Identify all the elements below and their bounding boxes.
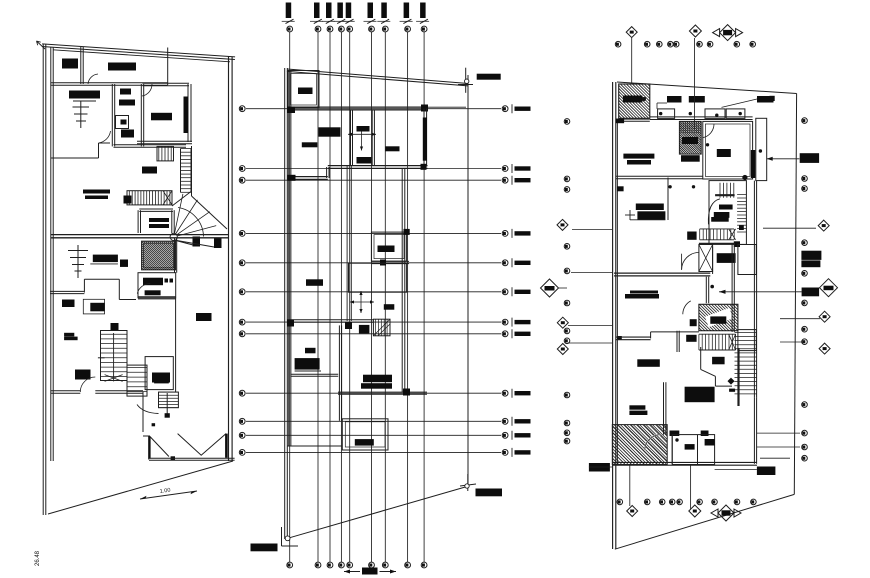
right plan: bottom bubble 3: [659, 499, 665, 505]
middle plan: horizontal grid line row 10: [246, 420, 501, 422]
right plan: third flight treads: [698, 334, 700, 350]
right plan: east room door arc: [702, 124, 714, 138]
middle plan: bottom dimension blob with arrows: [362, 568, 378, 575]
left plan: toilet blob2: [154, 380, 169, 383]
middle plan: grid 7 top bubble: [382, 26, 388, 32]
right plan: east bubble 9: [802, 402, 808, 408]
right plan: west stub lines: [571, 272, 612, 274]
middle plan: grid 5 top dim bar: [346, 3, 352, 19]
middle plan: horizontal grid line row 12: [246, 451, 501, 453]
right plan: lower bedroom blob: [637, 359, 660, 367]
right plan: top diamond marker: [626, 27, 637, 38]
left plan: lower kitchen blobs: [143, 278, 163, 286]
right plan: site north slanted boundary: [617, 82, 797, 94]
right plan: store room blob: [623, 96, 643, 103]
left plan: building west wall double: [50, 47, 52, 461]
left plan: hatched stair shaft: [142, 241, 176, 270]
right plan: east bubble 7: [802, 326, 808, 332]
right plan: bottom section line diamond: [629, 465, 631, 507]
right plan: west bubble 12: [564, 438, 570, 444]
middle plan: band wall row9: [338, 393, 427, 395]
middle plan: row 12 east tick and dim dash: [511, 448, 513, 457]
right plan: top bubble 1: [615, 41, 621, 47]
right plan: site east boundary: [794, 94, 796, 495]
middle plan: north-east corner label blob: [477, 74, 501, 80]
right plan: west bubble 8: [564, 338, 570, 344]
middle plan: vertical grid line 4: [340, 32, 342, 562]
middle plan: horizontal grid line row 1: [246, 108, 501, 110]
right plan: site south diagonal boundary: [615, 494, 795, 549]
right plan: site west boundary double: [612, 82, 614, 549]
middle plan: grid 1 bottom bubble: [287, 562, 293, 568]
right plan: building south wall: [612, 464, 757, 466]
middle plan: east wall upper section: [423, 109, 425, 167]
middle plan: grid 2 top bubble: [315, 26, 321, 32]
middle plan: south bay box: [342, 419, 388, 450]
left plan: lower kitchen box: [138, 273, 176, 298]
middle plan: column at west row1: [287, 107, 295, 114]
right plan: shaft blob below: [681, 155, 700, 162]
left plan: kitchen south wall: [51, 157, 99, 159]
right plan: west bubble 3: [564, 187, 570, 193]
left plan: top-left room door arc: [88, 74, 98, 84]
right plan: stair X-shaft strip: [699, 245, 713, 272]
middle plan: row 12 west bubble: [239, 450, 245, 456]
right plan: top bubble 9: [750, 41, 756, 47]
right plan: understair door diamond: [727, 378, 734, 385]
middle plan: grid 7 top dim bar: [381, 3, 387, 19]
middle plan: site south diagonal boundary: [288, 487, 467, 539]
middle plan: grid 4 top dim bar: [337, 3, 343, 19]
middle plan: west blobs lower: [305, 348, 316, 354]
right plan: third flight blob: [686, 335, 696, 342]
left plan: garage door leaf west: [150, 437, 169, 457]
right plan: stair top run treads: [719, 183, 721, 198]
right plan: north-east boundary column: [770, 96, 775, 101]
left plan: site boundary south diagonal: [48, 461, 233, 514]
right plan: door dot 2: [689, 112, 692, 115]
right plan: west diamond marker 3: [557, 344, 568, 355]
middle plan: row 6 west bubble: [239, 289, 245, 295]
left plan: lower south wall: [51, 392, 81, 394]
middle plan: horizontal grid line row 7: [246, 321, 501, 323]
left plan: upper stair riser column east: [180, 149, 182, 193]
left plan: upper stair top run: [157, 146, 174, 161]
left plan: kitchen label blob: [69, 91, 100, 99]
right plan: east leader arrow: [767, 158, 800, 160]
middle plan: room blobs west: [319, 127, 341, 136]
middle plan: row 11 east bubble: [502, 432, 508, 438]
right plan: east connecting stubs: [757, 432, 800, 434]
left plan: garage west jamb black: [148, 436, 150, 459]
left plan: living room east wall double: [187, 84, 189, 142]
left plan: lower south door arc: [80, 377, 95, 392]
middle plan: row 3 east tick and dim dash: [511, 176, 513, 185]
right plan: stair rail dark line: [737, 348, 739, 406]
middle plan: column row7 west: [287, 320, 294, 327]
right plan: lobby black blob: [717, 253, 736, 263]
right plan: lower east blob: [712, 357, 725, 365]
middle plan: grid 2 top dim bar: [314, 3, 320, 19]
middle plan: vertical grid line 9: [423, 32, 425, 562]
middle plan: column at east row1: [421, 105, 428, 112]
right plan: center wall lower: [663, 382, 665, 434]
right plan: stair landing box east: [738, 245, 756, 275]
middle plan: south-west corner label blob: [251, 544, 278, 552]
right plan: understair dash: [729, 389, 735, 392]
middle plan: row 2 east bubble: [502, 166, 508, 172]
left plan: hall table blob: [83, 190, 110, 194]
right plan: understair toilet walls: [700, 347, 702, 369]
middle plan: second band wall lower: [287, 178, 328, 180]
left plan: unit division wall double: [51, 237, 229, 239]
right plan: mid floor division wall: [614, 275, 710, 277]
right plan: building north wall: [650, 119, 753, 121]
right plan: section row line A: [572, 229, 612, 231]
middle plan: column row7 mid: [345, 322, 352, 329]
svg-text:1.00: 1.00: [159, 488, 170, 495]
right plan: section line top pentagon: [694, 38, 696, 129]
right plan: section line top diamond: [631, 38, 633, 84]
right plan: bay window strip east: [756, 118, 767, 180]
right plan: hall blobs west: [636, 204, 664, 211]
left plan: living room walls: [143, 85, 190, 87]
right plan: top bubble 3: [657, 41, 663, 47]
right plan: mid door dot: [710, 285, 714, 289]
right plan: top bubble 4: [668, 41, 674, 47]
right plan: west bubble 1: [564, 119, 570, 125]
right plan: mid-left label blobs: [630, 291, 658, 294]
left plan: passage room box: [139, 210, 173, 212]
left plan: bed blob top-left room: [62, 59, 78, 69]
right plan: stair block outline: [709, 181, 746, 245]
middle plan: second band jog: [326, 167, 328, 178]
middle plan: row 1 west bubble: [239, 106, 245, 112]
middle plan: grid 3 top dim bar: [326, 3, 332, 19]
middle plan: building south wall: [287, 445, 342, 447]
middle plan: row 3 east bubble: [502, 177, 508, 183]
middle plan: east window black bar: [423, 118, 427, 161]
middle plan: row 3 west bubble: [239, 177, 245, 183]
middle plan: row 8 east bubble: [502, 331, 508, 337]
right plan: south leader blob east: [757, 467, 776, 476]
right plan: east bubble 2: [802, 176, 808, 182]
right plan: south wall black squares: [670, 431, 680, 437]
left plan: stair landing blob: [75, 370, 91, 380]
right plan: east bubble 5: [802, 271, 808, 277]
left plan: top bedroom divider wall: [80, 47, 82, 84]
right plan: top bubble 6: [697, 41, 703, 47]
right plan: top leader blob 1: [667, 96, 682, 103]
right plan: east room label blob: [717, 149, 731, 157]
right plan: boundary column black: [617, 336, 622, 340]
middle plan: row 11 west bubble: [239, 432, 245, 438]
middle plan: first floor band wall: [287, 109, 428, 111]
left plan: site boundary north double line: [42, 47, 235, 60]
left plan: top blob beside plant: [93, 255, 118, 263]
middle plan: top-left room box: [288, 71, 320, 108]
left plan: stair side tick: [98, 357, 105, 359]
right plan: hall cross glyph: [625, 214, 635, 216]
right plan: east bubble 3: [802, 186, 808, 192]
right plan: stair band corner square: [739, 226, 744, 231]
middle plan: grid 1 top dim bar: [286, 3, 292, 19]
left plan: kitchen plant symbol: [80, 101, 82, 128]
right plan: hatched stair room bottom-left: [612, 425, 667, 465]
right plan: store room south wall: [616, 120, 650, 122]
left plan: label blob top-middle: [108, 63, 136, 71]
right plan: west big room south wall: [616, 178, 703, 180]
right plan: east bubble 8: [802, 339, 808, 345]
middle plan: east column row2: [421, 164, 427, 170]
left plan: diagonal wall to fan: [192, 196, 228, 229]
right plan: west bubble 2: [564, 176, 570, 182]
middle plan: site east boundary: [467, 75, 469, 487]
middle plan: wall under west rooms: [290, 375, 338, 377]
right plan: top leader blob 3: [757, 96, 774, 103]
right plan: hatched store room top-left: [619, 84, 650, 118]
middle plan: vertical grid line 3: [329, 32, 331, 562]
right plan: bottom small room: [672, 435, 714, 465]
middle plan: grid 8 top bubble: [405, 26, 411, 32]
middle plan: grid 2 bottom bubble: [315, 562, 321, 568]
right plan: landing up-arrow blob: [705, 308, 733, 327]
right plan: east bubble 10: [802, 430, 808, 436]
left plan: setback dimension 1.00: [140, 491, 197, 499]
middle plan: column at row5: [380, 260, 386, 266]
middle plan: row 10 west bubble: [239, 418, 245, 424]
right plan: hatched stair landing: [699, 304, 738, 330]
right plan: porch box 2: [705, 109, 725, 119]
left plan: entrance winder stair: [159, 392, 179, 408]
left plan: stair bottom X break: [105, 375, 123, 382]
middle plan: row 10 east tick and dim dash: [511, 417, 513, 426]
right plan: porch box 1: [658, 109, 675, 119]
right plan: bottom pentagon marker: [689, 505, 701, 517]
right plan: porch box 3: [726, 109, 745, 119]
left plan: lower kitchen south wall: [138, 298, 176, 300]
right plan: hall east wall: [667, 178, 669, 221]
left plan: wall right of top rooms: [167, 48, 169, 86]
left plan: wall under top bedrooms: [51, 84, 168, 86]
right plan: east stub lines short: [780, 318, 820, 320]
right plan: top bubble 8: [734, 41, 740, 47]
middle plan: row 9 east tick and dim dash: [511, 389, 513, 398]
right plan: interior dots: [706, 143, 709, 146]
middle plan: row 2 east tick and dim dash: [511, 164, 513, 173]
middle plan: horizontal grid line row 8: [246, 333, 501, 335]
left plan: lower stair tread band: [127, 191, 172, 205]
right plan: stair mid blobs: [719, 205, 733, 210]
right plan: west bubble 5: [564, 268, 570, 274]
middle plan: vertical grid line 8: [407, 32, 409, 562]
middle plan: row 11 east tick and dim dash: [511, 431, 513, 440]
right plan: east label blobs: [801, 251, 821, 260]
right plan: bottom bubble 8: [734, 499, 740, 505]
right plan: lower partition wall: [697, 435, 699, 464]
middle plan: grid 4 bottom bubble: [339, 562, 345, 568]
middle plan: grid 4 top bubble: [339, 26, 345, 32]
middle plan: row 1 east bubble: [502, 106, 508, 112]
middle plan: central room box: [349, 263, 407, 292]
right plan: bottom bubble 9: [751, 499, 757, 505]
right plan: east diamond marker 3: [819, 343, 830, 354]
middle plan: row 8 east tick and dim dash: [511, 329, 513, 338]
right plan: east big section diamond: [820, 279, 838, 297]
left plan: stair center rail: [113, 333, 115, 381]
right plan: bottom diamond marker: [627, 506, 638, 517]
right plan: bottom room blobs: [705, 439, 715, 446]
right plan: stair curve edge: [708, 199, 720, 225]
left plan: far east blob: [196, 313, 212, 321]
middle plan: horizontal grid line row 3: [246, 179, 501, 181]
right plan: hall door arc mid: [682, 252, 699, 269]
right plan: east bubble 1: [802, 118, 808, 124]
right plan: west bubble 10: [564, 420, 570, 426]
middle plan: row 12 east bubble: [502, 450, 508, 456]
right plan: center big blob: [685, 387, 715, 403]
middle plan: grid 8 bottom bubble: [405, 562, 411, 568]
left plan: lower hall east wall: [174, 238, 176, 273]
right plan: east diamond marker 1: [818, 220, 829, 231]
right plan: top bubble 7: [707, 41, 713, 47]
middle plan: row 4 east bubble: [502, 231, 508, 237]
right plan: east wall lower continuation: [753, 397, 755, 464]
middle plan: vertical grid line 1: [289, 32, 291, 562]
middle plan: grid 9 bottom bubble: [421, 562, 427, 568]
middle plan: grid 3 top bubble: [327, 26, 333, 32]
right plan: bottom section target marker: [718, 505, 734, 521]
right plan: bottom bubble 6: [697, 499, 703, 505]
middle plan: horizontal grid line row 4: [246, 232, 501, 234]
left plan: building top face line: [53, 50, 230, 62]
left plan: central stair second flight: [127, 365, 147, 396]
svg-text:26.48: 26.48: [35, 550, 41, 566]
middle plan: row 9 west bubble: [239, 390, 245, 396]
middle plan: shaft blob: [378, 246, 395, 253]
left plan: stair east wall: [191, 146, 193, 196]
middle plan: central dim cross: [360, 291, 362, 313]
middle plan: row 10 east bubble: [502, 418, 508, 424]
middle plan: horizontal grid line row 6: [246, 291, 501, 293]
right plan: stair lower run border: [700, 228, 734, 230]
middle plan: band wall row7: [287, 321, 373, 323]
right plan: west wall column blob: [617, 186, 624, 191]
middle plan: room blob east: [386, 146, 400, 151]
left plan: fan stair feet blobs: [193, 237, 201, 247]
left plan: bathroom fixture blobs: [120, 89, 131, 95]
middle plan: first floor band wall extension: [428, 106, 467, 108]
left plan: living room door arc: [142, 84, 152, 96]
left plan: lower bedroom1 blobs: [62, 300, 75, 308]
left plan: living east window black jamb: [184, 97, 189, 134]
middle plan: bath west wall: [350, 110, 352, 166]
right plan: top leader blob 2: [689, 96, 705, 103]
middle plan: row 2 west bubble: [239, 166, 245, 172]
right plan: west room label blob: [623, 154, 654, 159]
middle plan: column row3 west: [288, 175, 296, 181]
middle plan: site west boundary double: [284, 68, 286, 539]
middle plan: building west wall double: [288, 70, 290, 446]
right plan: east diamond marker 2: [819, 311, 830, 322]
left plan: site boundary west double line: [42, 44, 44, 515]
middle plan: second band wall upper: [328, 167, 428, 169]
right plan: lobby west wall: [712, 247, 714, 275]
left plan: stair top blob: [111, 323, 119, 331]
middle plan: top-left room blob: [298, 88, 313, 95]
middle plan: east wall mid section: [401, 168, 403, 392]
right plan: top bubble 2: [644, 41, 650, 47]
middle plan: corridor wall central: [346, 166, 348, 321]
right plan: west bubble 9: [564, 392, 570, 398]
middle plan: vertical grid line 5: [349, 32, 351, 562]
middle plan: column at shaft top: [404, 229, 410, 235]
middle plan: south-east corner label blob: [476, 489, 503, 497]
middle plan: grid 5 bottom bubble: [347, 562, 353, 568]
middle plan: row 7 east bubble: [502, 319, 508, 325]
right plan: landing door arc: [683, 301, 691, 314]
middle plan: south-west corner marker: [281, 527, 283, 546]
right plan: top bubble 5: [673, 41, 679, 47]
middle plan: row 5 west bubble: [239, 260, 245, 266]
left plan: lower bedroom1 walls: [50, 293, 84, 295]
right plan: stair box east lower: [738, 330, 756, 351]
middle plan: grid 9 top dim bar: [420, 3, 426, 19]
left plan: central stair lower unit: [101, 331, 128, 381]
left plan: kitchen door arc lower: [137, 284, 150, 294]
middle plan: vertical grid line 7: [384, 32, 386, 562]
right plan: door dot 1: [659, 112, 662, 115]
left plan: bathroom enclosure: [111, 84, 113, 146]
middle plan: vertical grid line 6: [371, 32, 373, 562]
right plan: west diamond marker 1: [557, 219, 568, 230]
middle plan: row 9 east bubble: [502, 390, 508, 396]
right plan: west diamond marker 2: [557, 317, 568, 328]
left plan: west room blob: [120, 260, 128, 267]
middle plan: row 6 east tick and dim dash: [511, 287, 513, 296]
right plan: west bubble 7: [564, 328, 570, 334]
right plan: west bubble 11: [564, 430, 570, 436]
middle plan: row 8 west bubble: [239, 331, 245, 337]
middle plan: row 4 west bubble: [239, 231, 245, 237]
right plan: west big section diamond: [541, 279, 559, 297]
middle plan: grid 9 top bubble: [421, 26, 427, 32]
left plan: living room label blob: [151, 113, 172, 121]
right plan: stair east risers: [737, 194, 746, 196]
middle plan: band wall row5: [371, 263, 409, 265]
middle plan: row 5 east bubble: [502, 260, 508, 266]
right plan: east stair wall: [753, 181, 755, 398]
right plan: east mid leader rect: [802, 288, 820, 297]
right plan: east room box: [703, 121, 753, 179]
middle plan: south bay blob: [355, 439, 374, 446]
right plan: building west wall line: [616, 120, 618, 464]
middle plan: column row9 east: [403, 389, 410, 396]
left plan: site boundary east double line: [228, 57, 230, 462]
middle plan: mini stair hatch: [373, 319, 390, 336]
left plan: plant symbol lower: [77, 245, 79, 278]
left plan: north-west corner arrow: [37, 41, 46, 49]
middle plan: blob west room2: [306, 279, 323, 286]
middle plan: west wall segment: [338, 325, 340, 420]
left plan: passage label blob: [149, 218, 169, 222]
right plan: east bubble 12: [802, 455, 808, 461]
middle plan: grid 6 bottom bubble: [369, 562, 375, 568]
right plan: wall below landing: [676, 331, 678, 352]
middle plan: vertical grid line 2: [317, 32, 319, 562]
middle plan: north-east corner marker: [465, 68, 467, 93]
right plan: south leader blob west: [589, 463, 610, 472]
